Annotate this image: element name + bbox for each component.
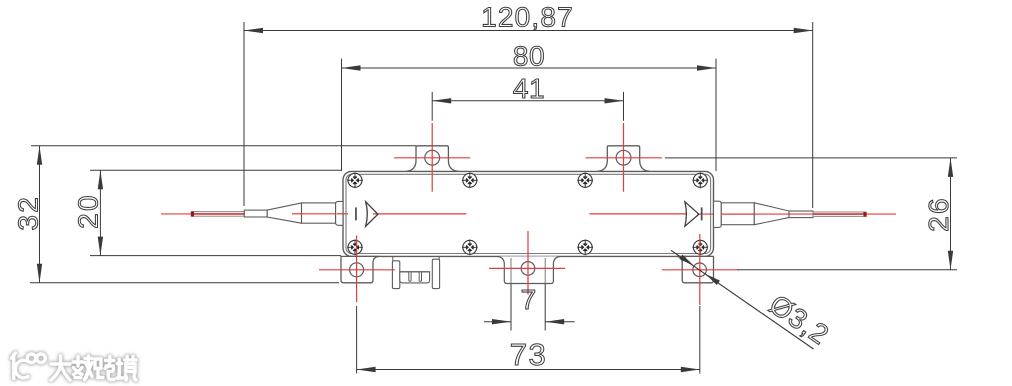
dimension 120,87 extension line right xyxy=(812,22,814,208)
top tab right hole xyxy=(616,150,631,165)
optical direction symbol left (dart) xyxy=(366,202,378,226)
bottom-right tab chamfer xyxy=(682,256,686,262)
screw bottom row 1 xyxy=(347,239,363,255)
bottom-center tab hole xyxy=(521,262,535,276)
dimension 80 extension line left xyxy=(341,59,343,171)
dimension 26 extension line top xyxy=(665,157,957,159)
svg-text:120,87: 120,87 xyxy=(481,2,574,33)
dimension 20 extension line bottom xyxy=(90,255,341,257)
dimension 26 line xyxy=(950,158,952,270)
right fiber dark red end xyxy=(864,212,867,217)
bottom-left mounting tab xyxy=(341,256,380,282)
optical direction symbol right (dart) xyxy=(685,202,699,226)
dimension 7 line right segment xyxy=(545,321,575,323)
left ferrule boss cap xyxy=(336,201,343,225)
right fiber bare section xyxy=(813,212,864,216)
left ferrule cone xyxy=(267,203,301,223)
top tab left hole xyxy=(425,150,440,165)
dimension 120,87 line xyxy=(244,30,813,32)
bottom-center mounting tab xyxy=(497,256,560,283)
dimension 80 extension line right xyxy=(715,59,717,171)
bottom-right mounting tab xyxy=(677,256,714,282)
right ferrule barrel xyxy=(721,203,754,225)
connector left post xyxy=(392,261,399,289)
screw top row 1 xyxy=(347,172,363,188)
svg-text:26: 26 xyxy=(923,196,954,232)
dimension 7 line left segment xyxy=(484,321,511,323)
screw bottom row 2 xyxy=(462,239,478,255)
red crosshair top tab left xyxy=(394,157,470,159)
left ferrule barrel xyxy=(302,203,336,223)
optical direction symbol left (bar) xyxy=(355,207,357,220)
svg-text:41: 41 xyxy=(513,73,545,104)
watermark logo and text (shadow layer) xyxy=(12,353,137,380)
right ferrule boss cap xyxy=(714,201,722,227)
dimension 26 extension line bottom xyxy=(738,269,958,271)
dimension 120,87 extension line left xyxy=(243,22,245,206)
connector right post xyxy=(432,259,439,288)
red crosshair bottom tab center xyxy=(489,267,565,269)
screw top row 2 xyxy=(462,172,478,188)
connector pin 2 xyxy=(419,272,421,281)
svg-text:7: 7 xyxy=(521,284,537,315)
screw bottom row 3 xyxy=(577,239,593,255)
left fiber bare section xyxy=(192,212,244,217)
right ferrule cone xyxy=(754,203,789,225)
dimension 73 extension line right xyxy=(699,306,701,374)
dimension 32 extension line top xyxy=(31,145,416,147)
dimension 7 extension line right xyxy=(544,284,546,331)
screw top row 3 xyxy=(577,172,593,188)
dimension 80 line xyxy=(342,67,717,69)
module body outline xyxy=(343,171,714,256)
module body inner line xyxy=(346,174,711,253)
right ferrule tube xyxy=(789,211,813,218)
connector channel xyxy=(400,272,430,283)
bottom-left tab hole xyxy=(350,263,364,277)
leader line for hole diameter xyxy=(671,250,814,349)
red crosshair bottom tab right xyxy=(662,269,739,271)
screw bottom row 4 xyxy=(692,239,708,255)
dimension 20 extension line top xyxy=(90,169,341,171)
dimension 32 line xyxy=(39,146,41,283)
dimension 73 line xyxy=(357,369,700,371)
left fiber dark red end xyxy=(191,211,194,216)
top mounting tab right xyxy=(597,146,650,172)
left ferrule tube xyxy=(244,210,267,217)
red centerline left fiber axis xyxy=(161,213,192,215)
svg-text:73: 73 xyxy=(510,337,547,372)
screw top row 4 xyxy=(692,172,708,188)
dimension 41 extension line left xyxy=(431,92,433,121)
red crosshair top tab right xyxy=(586,157,663,159)
svg-text:20: 20 xyxy=(73,193,104,229)
dimension 41 line xyxy=(432,100,623,102)
watermark logo and text (white layer) xyxy=(12,353,137,380)
top mounting tab left xyxy=(406,146,459,172)
dimension 32 extension line bottom xyxy=(30,282,339,284)
dimension 20 line xyxy=(99,170,101,255)
red centerline right fiber axis xyxy=(589,213,687,215)
svg-text:Ø3,2: Ø3,2 xyxy=(764,289,835,351)
svg-text:80: 80 xyxy=(513,40,545,71)
bottom-right tab hole xyxy=(693,263,707,277)
left ferrule cone centerline stub xyxy=(292,213,302,215)
dimension 7 extension line left xyxy=(510,284,512,331)
svg-text:32: 32 xyxy=(13,195,44,231)
optical direction symbol right (bar) xyxy=(701,207,703,220)
red crosshair bottom tab left xyxy=(319,269,395,271)
connector pin 1 xyxy=(409,272,411,281)
bottom-center tab inner slot lines xyxy=(510,258,512,283)
dimension 73 extension line left xyxy=(356,306,358,374)
dimension 41 extension line right xyxy=(623,92,625,121)
